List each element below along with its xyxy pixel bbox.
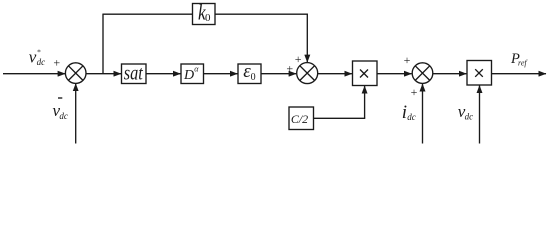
- svg-text:C/2: C/2: [291, 112, 308, 126]
- svg-text:+: +: [411, 85, 418, 99]
- svg-text:D: D: [183, 68, 194, 83]
- svg-text:dc: dc: [59, 111, 68, 121]
- svg-text:0: 0: [251, 72, 256, 83]
- svg-text:dc: dc: [37, 57, 46, 67]
- svg-text:ref: ref: [518, 59, 528, 68]
- svg-text:+: +: [404, 53, 411, 67]
- svg-text:+: +: [295, 52, 302, 66]
- svg-text:+: +: [53, 56, 60, 70]
- svg-text:dc: dc: [407, 112, 416, 122]
- svg-text:sat: sat: [124, 62, 143, 84]
- svg-text:+: +: [286, 61, 293, 75]
- svg-text:dc: dc: [465, 112, 474, 122]
- svg-text:0: 0: [205, 12, 211, 24]
- svg-text:*: *: [37, 48, 41, 57]
- svg-text:v: v: [29, 48, 37, 67]
